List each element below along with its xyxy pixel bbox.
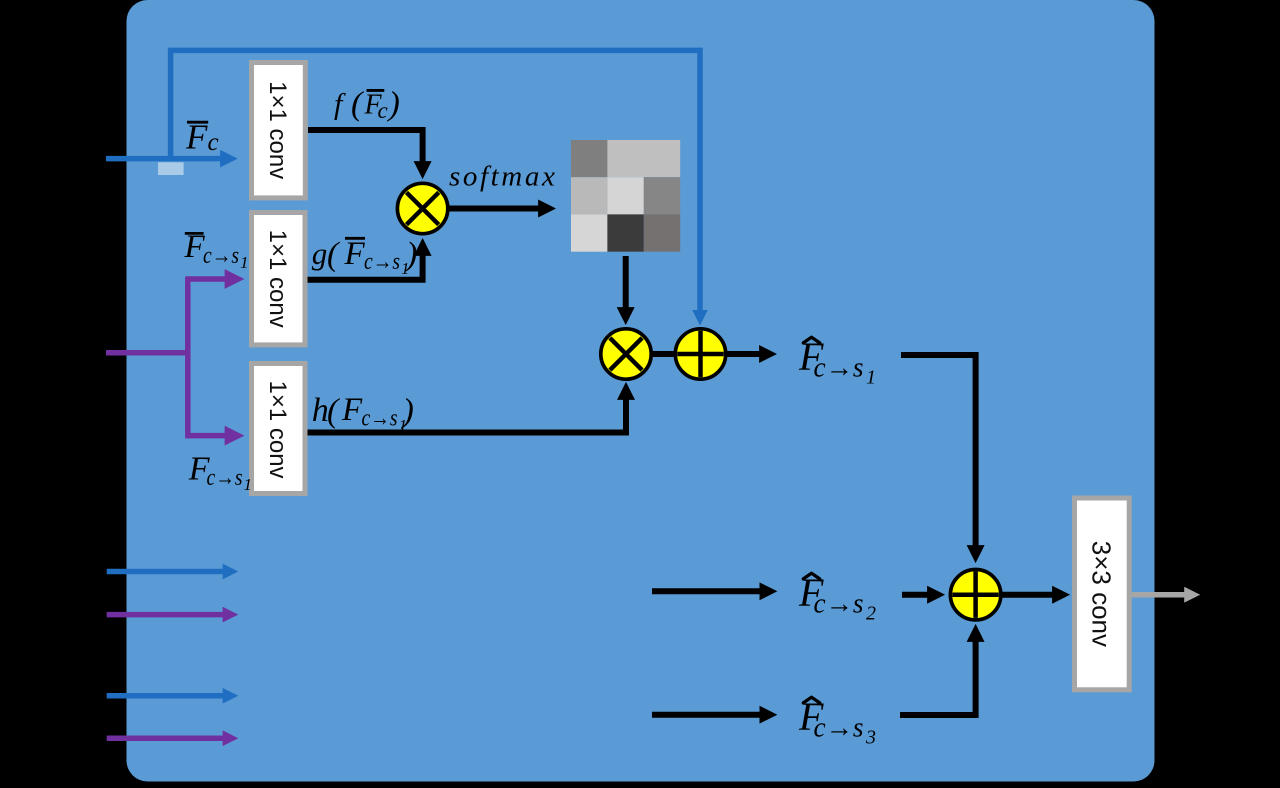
label g(Fbar_c_s1) [312,236,418,278]
wire input Fc (blue arrow) [106,156,221,162]
wire g line [307,255,423,280]
svg-text:c: c [378,98,388,123]
svg-text:1: 1 [244,475,253,494]
wire purple input [106,350,188,356]
conv box 1x1 U2 [252,213,306,345]
svg-text:1: 1 [240,253,249,272]
wire f line [308,130,423,162]
svg-text:c→s: c→s [814,589,864,620]
svg-text:c→s: c→s [362,406,398,432]
svg-text:3: 3 [865,727,876,749]
svg-text:c→s: c→s [364,249,400,275]
wire add1 out [726,351,760,357]
label Fhat_c_s1 [798,334,876,389]
label Fbar_c_s1 [184,229,249,272]
wire input s3 blue arrow [107,693,224,699]
wire mul2 to add1 [652,351,676,357]
wire feedback (blue) [171,50,700,310]
node tap (light blue) [158,162,184,175]
op add A1 [675,329,725,379]
label f(Fbar_c) [334,86,400,124]
wire row3 left arrow [652,712,760,718]
svg-text:1×1 conv: 1×1 conv [264,230,291,328]
svg-text:c→s: c→s [814,353,864,384]
label Fbar_c [185,117,219,156]
svg-text:1×1 conv: 1×1 conv [264,81,291,179]
svg-text:): ) [387,86,400,123]
op add A2 [950,570,1000,620]
wire row1 elbow to add2 [901,355,976,546]
svg-text:c→s: c→s [203,243,239,269]
wire input s3 purple arrow [107,735,224,741]
wire gray output [1132,592,1185,598]
wire add2 out [1002,592,1053,598]
conv box 3x3 U4 [1075,498,1130,690]
svg-text:g: g [312,236,328,271]
wire row2 left arrow [652,588,760,594]
svg-text:2: 2 [866,603,876,625]
svg-text:F: F [341,392,363,428]
op multiply X2 [601,329,651,379]
attention map grid [571,140,680,252]
wire purple arm to conv2 [186,276,226,282]
svg-text:c→s: c→s [207,465,243,491]
svg-text:softmax: softmax [449,161,557,193]
wire purple branch vertical [185,277,191,439]
label F_c_s1 [188,451,252,494]
wire input s2 blue arrow [107,569,224,575]
wire purple arm to conv3 [186,433,226,439]
op multiply X1 [397,183,447,233]
conv box 1x1 U1 [252,63,306,198]
svg-text:c: c [208,129,219,156]
wire softmax arrow [450,206,540,212]
wire input s2 purple arrow [107,612,224,618]
svg-text:3×3 conv: 3×3 conv [1087,541,1117,647]
wire h line [307,399,626,433]
wire grid to mul2 [623,256,629,308]
svg-text:): ) [404,236,417,273]
svg-text:): ) [401,393,414,430]
label h(F_c_s1) [312,392,414,435]
label Fhat_c_s3 [798,694,876,749]
svg-text:1×1 conv: 1×1 conv [264,380,291,478]
wire row2 to add2 [902,592,928,598]
label Fhat_c_s2 [798,570,876,625]
wire row3 elbow to add2 [900,641,976,715]
svg-text:F: F [344,236,366,272]
conv box 1x1 U3 [252,364,306,494]
svg-text:c→s: c→s [814,713,864,744]
svg-text:1: 1 [866,367,876,389]
